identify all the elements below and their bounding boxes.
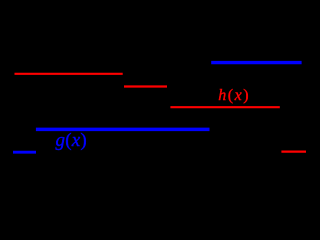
h(x) step segment 4 [281,151,306,153]
h(x) step segment 3 [170,106,279,108]
h(x) step segment 1 [15,73,123,75]
g(x) step segment 2 [36,128,210,132]
h(x) step segment 2 [124,85,167,87]
svg-text:g(x): g(x) [56,130,87,151]
g(x) step segment 3 [211,61,301,64]
g(x) step segment 1 [13,151,36,154]
svg-text:h(x): h(x) [218,87,250,104]
